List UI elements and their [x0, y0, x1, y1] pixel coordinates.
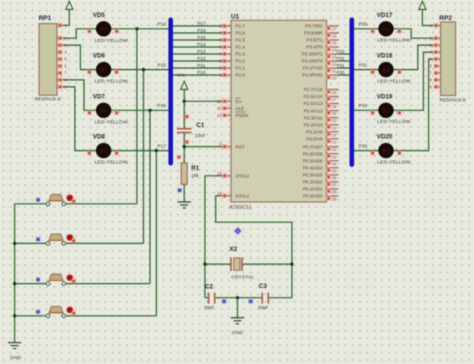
- LED VD6: [96, 62, 111, 77]
- svg-text:RP1: RP1: [39, 15, 52, 22]
- resistor R1: [181, 163, 187, 185]
- node P14 junction: [135, 27, 138, 30]
- svg-text:P3.2/INT0: P3.2/INT0: [302, 59, 323, 64]
- svg-text:15: 15: [332, 41, 337, 46]
- svg-text:P15: P15: [157, 62, 166, 68]
- wire Vcc node to C1 top: [183, 101, 185, 128]
- wire button common to GND: [14, 204, 16, 343]
- U1 pin 8 (P1.7): [225, 25, 231, 27]
- RP1 pin 2: [57, 37, 62, 39]
- svg-text:P3.3/INT1: P3.3/INT1: [302, 52, 323, 57]
- wire button 4 to P17 node: [155, 151, 157, 316]
- wire crystal left: [205, 263, 231, 265]
- U1 pin 18 (XTAL2): [225, 175, 231, 177]
- U1 pin 35 (P0.4/AD4): [327, 167, 339, 169]
- node RST junction: [183, 145, 186, 148]
- svg-text:ALE: ALE: [236, 106, 245, 111]
- RP1 pin 7: [57, 72, 62, 74]
- capacitor C3: [262, 293, 268, 304]
- button SW1 actuator dot: [66, 194, 74, 202]
- svg-text:P31: P31: [337, 63, 345, 68]
- button SW1 pin marker: [72, 199, 76, 203]
- LED VD8: [96, 143, 111, 158]
- svg-text:P2.0/A8: P2.0/A8: [306, 136, 323, 141]
- crystal X2: [231, 257, 242, 271]
- svg-text:LED-YELLOW.: LED-YELLOW.: [377, 119, 411, 125]
- wire U1 P3.1 to right bus: [339, 67, 350, 69]
- RP2 pin 7: [434, 72, 441, 74]
- svg-text:XTAL1: XTAL1: [236, 194, 250, 199]
- ground (crystal): [231, 318, 244, 324]
- U1 pin 2 (P1.1): [225, 67, 231, 69]
- svg-text:10uF: 10uF: [195, 133, 206, 138]
- svg-text:30pF: 30pF: [258, 305, 269, 310]
- wire button 4 left: [15, 315, 46, 317]
- U1 pin 29 (PSEN): [225, 114, 231, 116]
- U1 pin 17 (P3.7/RD): [327, 25, 339, 27]
- U1 pin 21 (P2.0/A8): [327, 138, 339, 140]
- svg-text:P3.4/T0: P3.4/T0: [306, 45, 323, 50]
- svg-text:P11: P11: [197, 63, 206, 69]
- svg-text:P30: P30: [337, 70, 345, 75]
- LED VD19: [378, 103, 393, 118]
- node button common junction: [13, 282, 16, 285]
- U1 pin 9 (RST): [225, 146, 231, 148]
- capacitor C2: [209, 293, 215, 304]
- push button SW2: [46, 234, 66, 245]
- svg-text:P0.1/AD1: P0.1/AD1: [303, 187, 323, 192]
- svg-text:P1.6: P1.6: [236, 31, 246, 36]
- wire left bus to U1 P1.6: [173, 32, 224, 34]
- U1 pin 34 (P0.5/AD5): [327, 160, 339, 162]
- svg-text:37: 37: [332, 182, 337, 187]
- svg-text:P0.0/AD0: P0.0/AD0: [303, 194, 323, 199]
- wire RP1 pin8 to VD7: [62, 80, 96, 110]
- wire VD19 to RP2 pin4: [393, 52, 434, 110]
- U1 pin 28 (P2.7/A15): [327, 88, 339, 90]
- wire left bus to U1 P1.5: [173, 39, 224, 41]
- svg-text:P33: P33: [337, 49, 345, 54]
- svg-text:18: 18: [217, 171, 222, 176]
- U1 pin 26 (P2.5/A13): [327, 103, 339, 105]
- wire left bus to U1 P1.3: [173, 53, 224, 55]
- node P15 junction: [142, 68, 145, 71]
- svg-text:P0.2/AD2: P0.2/AD2: [303, 180, 323, 185]
- svg-text:P16: P16: [157, 103, 166, 109]
- wire button 1 left: [15, 203, 46, 205]
- svg-text:P1.1: P1.1: [236, 66, 246, 71]
- op-amp U1 body (AT89C51): [231, 20, 327, 202]
- svg-text:P3.7/RD: P3.7/RD: [305, 24, 323, 29]
- wire RP2 pin1 to power rail: [422, 9, 433, 25]
- svg-text:P0.5/AD5: P0.5/AD5: [303, 158, 323, 163]
- U1 pin 25 (P2.4/A12): [327, 110, 339, 112]
- svg-text:P32: P32: [359, 103, 368, 109]
- svg-text:P15: P15: [197, 35, 206, 41]
- svg-text:34: 34: [332, 161, 337, 166]
- push button SW4: [46, 306, 66, 317]
- svg-text:AT89C51: AT89C51: [230, 205, 253, 211]
- LED VD18: [378, 62, 393, 77]
- RP1 pin 4: [57, 51, 62, 53]
- svg-text:VD8: VD8: [93, 134, 106, 141]
- power Vcc (RP1): [66, 1, 73, 9]
- svg-text:PSEN: PSEN: [236, 113, 249, 118]
- svg-text:VD19: VD19: [377, 93, 393, 100]
- U1 pin 36 (P0.3/AD3): [327, 174, 339, 176]
- power Vcc (RP2): [419, 1, 426, 9]
- node cap ground junction: [236, 296, 239, 299]
- U1 pin 1 (P1.0): [225, 74, 231, 76]
- svg-text:LED-YELLOW.: LED-YELLOW.: [95, 79, 129, 85]
- wire to C2 left: [205, 297, 208, 299]
- svg-text:P16: P16: [197, 28, 206, 34]
- wire C2 to C3: [216, 297, 262, 299]
- wire button 3 left: [15, 283, 46, 285]
- RP1 pin 9: [57, 86, 62, 88]
- wire VD18 to RP2 pin3: [393, 45, 434, 69]
- wire C1 bottom to RST node: [183, 133, 185, 146]
- svg-text:VD20: VD20: [377, 134, 393, 141]
- svg-text:LED-YELLOW.: LED-YELLOW.: [95, 38, 129, 44]
- svg-text:P14: P14: [157, 22, 166, 28]
- svg-text:P2.5/A13: P2.5/A13: [304, 101, 323, 106]
- U1 pin 11 (P3.1/TXD): [327, 67, 339, 69]
- svg-text:GND: GND: [10, 355, 22, 361]
- wire crystal right: [243, 263, 292, 265]
- svg-text:P2.4/A12: P2.4/A12: [304, 108, 323, 113]
- wire right bus to VD20: [354, 150, 379, 152]
- svg-text:RP2: RP2: [439, 15, 452, 22]
- svg-text:P3.5/T1: P3.5/T1: [306, 38, 323, 43]
- node P17 junction: [155, 149, 158, 152]
- RP2 pin 1: [434, 25, 441, 27]
- RP1 pin 6: [57, 65, 62, 67]
- node button common junction: [13, 314, 16, 317]
- C2 pin state marker: [222, 299, 227, 304]
- wire button 1 right: [66, 203, 137, 205]
- resistor pack RP1 body: [39, 24, 57, 96]
- push button SW3: [46, 274, 66, 285]
- svg-text:P10: P10: [197, 70, 206, 76]
- svg-text:P3.0/RXD: P3.0/RXD: [302, 73, 323, 78]
- LED VD20: [378, 143, 393, 158]
- svg-text:P1.3: P1.3: [236, 52, 246, 57]
- wire VD5 to left bus (P14): [111, 28, 169, 30]
- wire button 4 right: [66, 315, 157, 317]
- svg-text:19: 19: [217, 191, 222, 196]
- svg-text:39: 39: [332, 197, 337, 202]
- svg-text:VD5: VD5: [93, 12, 106, 19]
- svg-text:30: 30: [217, 106, 222, 111]
- svg-text:C2: C2: [205, 284, 214, 291]
- svg-text:28: 28: [332, 90, 337, 95]
- U1 pin 14 (P3.4/T0): [327, 46, 339, 48]
- svg-text:22: 22: [332, 132, 337, 137]
- svg-text:26: 26: [332, 104, 337, 109]
- wire left bus to U1 P1.7: [173, 25, 224, 27]
- svg-text:U1: U1: [231, 14, 240, 21]
- svg-text:31: 31: [217, 99, 222, 104]
- svg-text:R1: R1: [191, 165, 200, 172]
- svg-text:25: 25: [332, 111, 337, 116]
- svg-text:16: 16: [332, 34, 337, 39]
- wire right bus to VD19: [354, 109, 379, 111]
- U1 pin 4 (P1.3): [225, 53, 231, 55]
- button SW1 state marker: [36, 197, 41, 202]
- svg-text:23: 23: [332, 125, 337, 130]
- wire VD6 to left bus (P15): [111, 69, 169, 71]
- svg-text:VD7: VD7: [93, 93, 106, 100]
- svg-text:P14: P14: [197, 42, 206, 48]
- U1 pin 27 (P2.6/A14): [327, 95, 339, 97]
- button SW2 pin marker: [72, 239, 76, 243]
- svg-text:P0.6/AD6: P0.6/AD6: [303, 151, 323, 156]
- button SW2 actuator dot: [66, 234, 74, 242]
- U1 pin 19 (XTAL1): [225, 195, 231, 197]
- svg-text:RST: RST: [236, 144, 245, 149]
- U1 pin 5 (P1.4): [225, 46, 231, 48]
- button SW3 pin marker: [72, 279, 76, 283]
- wire Vcc stem: [183, 90, 185, 102]
- RP2 pin 6: [434, 65, 441, 67]
- wire VD20 to RP2 pin5: [393, 59, 434, 151]
- svg-text:XTAL2: XTAL2: [236, 174, 250, 179]
- U1 pin 37 (P0.2/AD2): [327, 181, 339, 183]
- RP2 pin 8: [434, 79, 441, 81]
- U1 pin 30 (ALE): [225, 107, 231, 109]
- svg-text:RESPACK-8: RESPACK-8: [440, 97, 466, 102]
- svg-text:Vcc: Vcc: [177, 73, 186, 79]
- wire right bus to VD17: [354, 28, 379, 30]
- wire right bus to VD18: [354, 69, 379, 71]
- svg-text:24: 24: [332, 118, 337, 123]
- bus P3 right: [349, 20, 354, 165]
- wire RP1 pin3 to VD6: [62, 45, 96, 69]
- node crystal left junction: [203, 262, 206, 265]
- wire R1 bottom to ground: [183, 184, 185, 201]
- RP1 pin 1: [57, 24, 62, 26]
- voltage probe marker: [233, 226, 243, 236]
- U1 pin 33 (P0.6/AD6): [327, 153, 339, 155]
- wire XTAL2 left leg: [205, 176, 224, 298]
- node crystal right junction: [290, 262, 293, 265]
- C3 pin state marker: [248, 299, 253, 304]
- svg-text:P1.5: P1.5: [236, 38, 246, 43]
- U1 pin 32 (P0.7/AD7): [327, 146, 339, 148]
- svg-text:P17: P17: [157, 143, 166, 149]
- svg-text:27: 27: [332, 97, 337, 102]
- svg-text:P2.7/A15: P2.7/A15: [304, 87, 323, 92]
- wire U1 P3.2 to right bus: [339, 60, 350, 62]
- svg-text:P2.2/A10: P2.2/A10: [304, 122, 323, 127]
- svg-text:LED-YELLOW.: LED-YELLOW.: [95, 160, 129, 166]
- svg-text:P12: P12: [197, 56, 206, 62]
- svg-text:17: 17: [332, 27, 337, 32]
- svg-text:P0.7/AD7: P0.7/AD7: [303, 144, 323, 149]
- svg-text:GND: GND: [232, 330, 244, 336]
- button SW3 actuator dot: [66, 274, 74, 282]
- svg-text:CRYSTAL: CRYSTAL: [231, 274, 254, 280]
- button SW3 state marker: [36, 277, 41, 282]
- C1 bottom pin marker: [185, 140, 189, 144]
- svg-text:VD17: VD17: [377, 12, 393, 19]
- U1 pin 3 (P1.2): [225, 60, 231, 62]
- LED VD7: [96, 103, 111, 118]
- wire button 3 to P16 node: [149, 110, 151, 283]
- wire RP1 pin9 to VD8: [62, 87, 96, 151]
- svg-text:LED-YELLOW.: LED-YELLOW.: [377, 38, 411, 44]
- wire Vcc to EA pin31: [184, 100, 224, 102]
- capacitor C1: [177, 128, 192, 133]
- RP1 pin 3: [57, 44, 62, 46]
- svg-text:P13: P13: [197, 49, 206, 55]
- ground (buttons): [8, 343, 21, 349]
- RP2 pin 5: [434, 58, 441, 60]
- svg-text:VD6: VD6: [93, 53, 106, 60]
- RP2 pin 9: [434, 86, 441, 88]
- svg-text:21: 21: [332, 139, 337, 144]
- U1 pin 16 (P3.6/WR): [327, 32, 339, 34]
- svg-text:VD18: VD18: [377, 53, 393, 60]
- resistor pack RP2 body: [441, 22, 456, 96]
- wire cap node to ground: [237, 298, 239, 318]
- svg-text:LED-YELLOW.: LED-YELLOW.: [95, 119, 129, 125]
- svg-text:P1.4: P1.4: [236, 45, 246, 50]
- svg-text:P32: P32: [337, 56, 345, 61]
- wire U1 P3.0 to right bus: [339, 74, 350, 76]
- svg-text:32: 32: [332, 147, 337, 152]
- svg-text:EA: EA: [236, 99, 243, 104]
- svg-text:P2.1/A9: P2.1/A9: [306, 129, 323, 134]
- svg-text:10k: 10k: [191, 173, 199, 178]
- svg-text:10: 10: [332, 76, 337, 81]
- svg-text:P1.0: P1.0: [236, 73, 246, 78]
- svg-text:P2.6/A14: P2.6/A14: [304, 94, 323, 99]
- power Vcc (EA): [181, 81, 188, 89]
- svg-text:38: 38: [332, 190, 337, 195]
- svg-text:P30: P30: [359, 22, 368, 28]
- wire button 2 left: [15, 242, 46, 244]
- node button common junction: [13, 242, 16, 245]
- ground (R1): [178, 202, 191, 208]
- svg-text:33: 33: [332, 154, 337, 159]
- svg-text:35: 35: [332, 168, 337, 173]
- wire RP1 pin1 to power rail: [62, 9, 69, 25]
- wire XTAL1 leg: [216, 196, 292, 298]
- wire left bus to U1 P1.1: [173, 67, 224, 69]
- svg-text:P0.3/AD3: P0.3/AD3: [303, 173, 323, 178]
- U1 pin 24 (P2.3/A11): [327, 117, 339, 119]
- U1 pin 23 (P2.2/A10): [327, 124, 339, 126]
- wire U1 P3.3 to right bus: [339, 53, 350, 55]
- wire VD17 to RP2 pin2: [393, 29, 434, 38]
- svg-text:LED-YELLOW.: LED-YELLOW.: [377, 159, 411, 165]
- svg-text:30pF: 30pF: [204, 305, 215, 310]
- wire button 3 right: [66, 283, 150, 285]
- wire node to R1 top: [183, 147, 185, 163]
- svg-text:C3: C3: [259, 283, 268, 290]
- push button SW1: [46, 194, 66, 205]
- button SW4 state marker: [36, 309, 41, 314]
- U1 pin 13 (P3.3/INT1): [327, 53, 339, 55]
- svg-text:X2: X2: [229, 246, 237, 253]
- RP1 pin 8: [57, 79, 62, 81]
- svg-text:P2.3/A11: P2.3/A11: [304, 115, 323, 120]
- wire left bus to U1 P1.2: [173, 60, 224, 62]
- U1 pin 12 (P3.2/INT0): [327, 60, 339, 62]
- RP1 pin 5: [57, 58, 62, 60]
- U1 pin 38 (P0.1/AD1): [327, 188, 339, 190]
- wire left bus to U1 P1.0: [173, 74, 224, 76]
- svg-text:C1: C1: [196, 122, 205, 129]
- svg-text:P17: P17: [197, 21, 206, 27]
- U1 pin 39 (P0.0/AD0): [327, 195, 339, 197]
- svg-text:RESPACK-8: RESPACK-8: [35, 96, 61, 101]
- U1 EA/PSEN overlines: [236, 97, 241, 99]
- U1 pin 7 (P1.6): [225, 32, 231, 34]
- LED VD5: [96, 21, 111, 36]
- wire RP1 pin2 to VD5: [62, 29, 96, 38]
- R1 top pin marker: [177, 155, 181, 159]
- RP2 pin 3: [434, 44, 441, 46]
- C1 top pin marker: [185, 114, 189, 118]
- button SW4 actuator dot: [66, 306, 74, 314]
- svg-text:P3.1/TXD: P3.1/TXD: [303, 66, 324, 71]
- button SW2 state marker: [36, 237, 41, 242]
- svg-text:P31: P31: [359, 62, 368, 68]
- svg-text:P33: P33: [359, 143, 368, 149]
- wire button 2 to P15 node: [143, 70, 145, 244]
- svg-text:P1.7: P1.7: [236, 24, 246, 29]
- U1 pin 31 (EA): [225, 100, 231, 102]
- svg-text:P1.2: P1.2: [236, 59, 246, 64]
- wire left bus to U1 P1.4: [173, 46, 224, 48]
- svg-text:36: 36: [332, 175, 337, 180]
- bus P1 left: [168, 20, 173, 163]
- U1 pin 10 (P3.0/RXD): [327, 74, 339, 76]
- wire node to RST pin9: [184, 146, 224, 148]
- wire VD8 to left bus (P17): [111, 150, 169, 152]
- LED VD17: [378, 21, 393, 36]
- wire button 1 to P14 node: [136, 29, 138, 204]
- wire VD7 to left bus (P16): [111, 109, 169, 111]
- RP2 pin 2: [434, 37, 441, 39]
- U1 pin 22 (P2.1/A9): [327, 131, 339, 133]
- node P16 junction: [148, 109, 151, 112]
- svg-text:P3.6/WR: P3.6/WR: [304, 31, 323, 36]
- U1 pin 6 (P1.5): [225, 39, 231, 41]
- svg-text:29: 29: [217, 113, 222, 118]
- node Vcc/EA junction: [183, 100, 186, 103]
- button SW4 pin marker: [72, 311, 76, 315]
- svg-text:LED-YELLOW.: LED-YELLOW.: [377, 78, 411, 84]
- U1 pin 15 (P3.5/T1): [327, 39, 339, 41]
- wire C3 right: [269, 297, 292, 299]
- svg-text:P0.4/AD4: P0.4/AD4: [303, 165, 323, 170]
- R1 bottom pin marker: [177, 188, 182, 193]
- wire button 2 right: [66, 242, 144, 244]
- RP2 pin 4: [434, 51, 441, 53]
